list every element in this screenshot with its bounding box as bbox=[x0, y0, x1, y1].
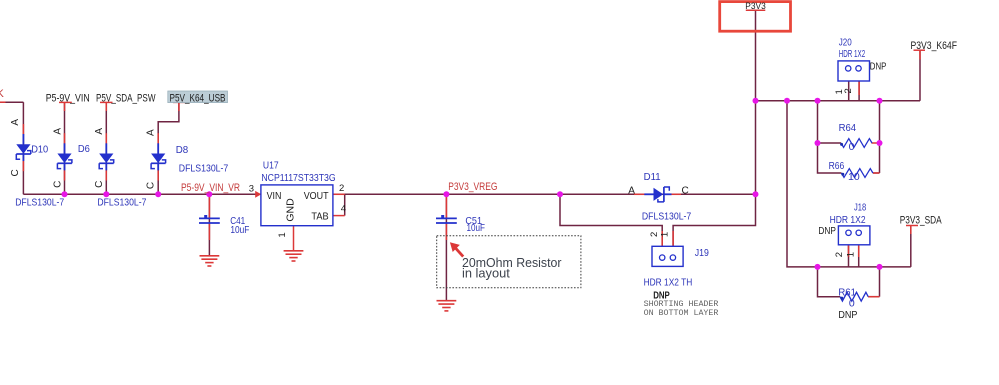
svg-text:P3V3: P3V3 bbox=[745, 1, 766, 12]
svg-text:P3V3_SDA: P3V3_SDA bbox=[900, 214, 942, 226]
svg-text:1: 1 bbox=[660, 232, 671, 237]
svg-text:P5-9V_VIN_VR: P5-9V_VIN_VR bbox=[181, 182, 240, 194]
svg-text:U17: U17 bbox=[263, 159, 279, 171]
svg-text:P5-9V_VIN: P5-9V_VIN bbox=[46, 92, 90, 104]
svg-text:10uF: 10uF bbox=[230, 224, 249, 236]
svg-text:A: A bbox=[146, 129, 157, 136]
svg-text:R66: R66 bbox=[829, 160, 845, 172]
svg-text:C: C bbox=[52, 181, 63, 188]
svg-text:0: 0 bbox=[849, 141, 855, 153]
svg-text:10uF: 10uF bbox=[467, 222, 486, 234]
svg-text:NCP1117ST33T3G: NCP1117ST33T3G bbox=[261, 172, 335, 184]
svg-text:D11: D11 bbox=[644, 171, 661, 183]
svg-text:DNP: DNP bbox=[838, 309, 857, 321]
svg-text:DFLS130L-7: DFLS130L-7 bbox=[642, 211, 692, 223]
svg-text:C: C bbox=[94, 181, 105, 188]
svg-text:3: 3 bbox=[249, 183, 254, 194]
svg-text:DNP: DNP bbox=[818, 225, 836, 237]
svg-text:2: 2 bbox=[834, 252, 845, 257]
svg-text:2: 2 bbox=[649, 232, 660, 237]
svg-text:DFLS130L-7: DFLS130L-7 bbox=[15, 196, 64, 208]
svg-text:1: 1 bbox=[845, 252, 856, 257]
svg-text:A: A bbox=[94, 128, 105, 135]
svg-text:2: 2 bbox=[843, 88, 854, 93]
svg-text:J19: J19 bbox=[695, 247, 709, 259]
svg-text:P5V_K64_USB: P5V_K64_USB bbox=[170, 92, 226, 104]
svg-text:4: 4 bbox=[341, 203, 346, 214]
svg-text:C: C bbox=[682, 185, 689, 196]
svg-text:K: K bbox=[0, 88, 5, 100]
svg-text:HDR 1X2 TH: HDR 1X2 TH bbox=[644, 276, 693, 288]
svg-text:P5V_SDA_PSW: P5V_SDA_PSW bbox=[96, 92, 156, 104]
svg-text:C: C bbox=[10, 169, 21, 176]
svg-text:TAB: TAB bbox=[311, 211, 328, 223]
svg-text:J18: J18 bbox=[854, 202, 866, 214]
svg-text:R64: R64 bbox=[839, 122, 857, 134]
svg-text:0: 0 bbox=[849, 297, 855, 309]
svg-text:C: C bbox=[146, 182, 157, 189]
svg-text:D8: D8 bbox=[176, 144, 189, 156]
svg-text:D10: D10 bbox=[31, 143, 48, 155]
svg-text:in layout: in layout bbox=[462, 267, 510, 281]
svg-text:GND: GND bbox=[284, 198, 296, 222]
svg-text:2: 2 bbox=[339, 183, 344, 194]
svg-text:DNP: DNP bbox=[870, 60, 887, 72]
svg-text:J20: J20 bbox=[839, 37, 852, 49]
svg-text:DFLS130L-7: DFLS130L-7 bbox=[179, 162, 229, 174]
svg-text:P3V3_K64F: P3V3_K64F bbox=[911, 40, 958, 52]
svg-text:P3V3_VREG: P3V3_VREG bbox=[448, 181, 497, 193]
svg-text:A: A bbox=[52, 128, 63, 135]
svg-text:DFLS130L-7: DFLS130L-7 bbox=[97, 196, 146, 208]
svg-text:D6: D6 bbox=[78, 143, 90, 155]
svg-text:1: 1 bbox=[277, 232, 288, 237]
svg-text:10: 10 bbox=[848, 171, 860, 183]
svg-text:HDR 1X2: HDR 1X2 bbox=[839, 48, 866, 60]
svg-text:VOUT: VOUT bbox=[304, 190, 329, 202]
svg-text:A: A bbox=[10, 119, 21, 126]
svg-text:ON BOTTOM LAYER: ON BOTTOM LAYER bbox=[644, 308, 719, 318]
svg-text:VIN: VIN bbox=[267, 190, 282, 202]
svg-text:A: A bbox=[628, 185, 635, 196]
